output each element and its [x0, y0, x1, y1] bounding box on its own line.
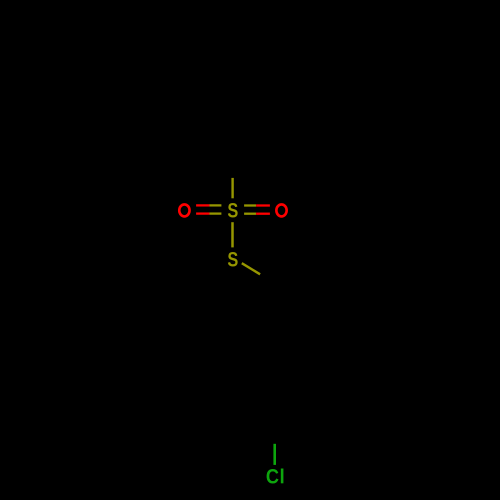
- svg-text:C: C: [266, 465, 279, 489]
- svg-text:S: S: [227, 198, 238, 221]
- svg-text:S: S: [227, 248, 238, 271]
